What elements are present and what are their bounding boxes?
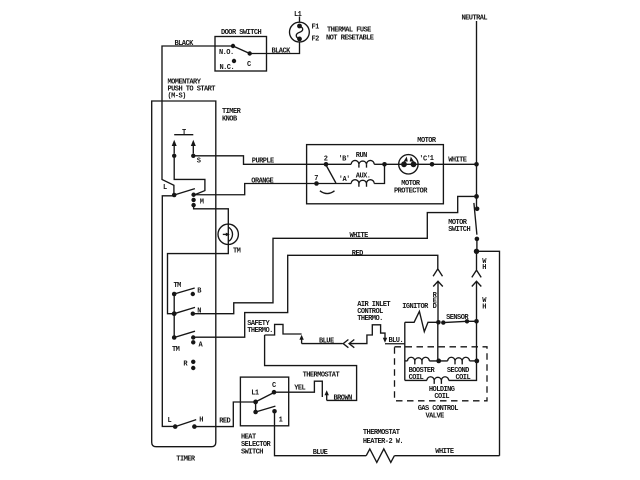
svg-text:MOTOR: MOTOR: [417, 137, 437, 145]
second coil: [447, 357, 477, 382]
timer switch L-M: [163, 184, 204, 208]
svg-text:C: C: [247, 61, 251, 69]
timer box: [152, 101, 216, 464]
motor box: [307, 137, 444, 204]
motor switch: [448, 203, 479, 254]
white wire bottom: [394, 455, 499, 457]
holding coil: [405, 361, 477, 401]
orange wire M to motor pin7: [194, 184, 317, 195]
svg-text:VALVE: VALVE: [426, 412, 445, 420]
timer switch A: [172, 331, 204, 354]
svg-text:BLACK: BLACK: [175, 40, 195, 48]
svg-text:YEL: YEL: [294, 385, 305, 393]
timer motor TM: [218, 224, 241, 255]
svg-text:2: 2: [324, 156, 328, 164]
svg-text:COIL: COIL: [434, 393, 449, 401]
svg-text:RUN: RUN: [356, 152, 367, 160]
svg-text:M: M: [200, 199, 204, 207]
timer contact R unused: [183, 360, 195, 371]
svg-text:1: 1: [279, 416, 283, 424]
svg-text:DOOR SWITCH: DOOR SWITCH: [221, 29, 262, 37]
connector arrow WH rail: [472, 281, 482, 286]
svg-text:L: L: [168, 417, 172, 425]
safety thermostat element: [265, 324, 302, 335]
wire common to pin1 through protector: [385, 163, 433, 165]
svg-text:BLUE: BLUE: [313, 449, 328, 457]
svg-text:L1: L1: [251, 389, 259, 397]
svg-text:WHITE: WHITE: [350, 232, 369, 240]
neutral rail below motor switch: [476, 251, 478, 269]
brown wire loop to safety thermo: [265, 335, 357, 400]
svg-text:C: C: [272, 382, 276, 390]
air inlet contact arrow: [383, 338, 387, 343]
red wire A contact to gas valve connector: [193, 255, 437, 337]
junction dot white neutral: [474, 162, 479, 167]
red rail junction to booster junction: [437, 322, 439, 361]
ignitor element: [405, 311, 437, 331]
wire rail pivot to bottom L contact: [162, 196, 175, 427]
junction dot second coil right: [474, 359, 479, 364]
svg-text:BLUE: BLUE: [319, 337, 334, 345]
svg-text:L: L: [163, 184, 167, 192]
timer switch TM-B: [172, 282, 202, 297]
motor pin 2: [324, 162, 329, 167]
wire black door switch C to thermal fuse: [250, 42, 300, 53]
svg-text:PURPLE: PURPLE: [252, 157, 274, 165]
svg-text:THERMAL FUSE: THERMAL FUSE: [327, 26, 371, 34]
timer switch N: [172, 307, 202, 316]
safety contact arrow: [299, 335, 303, 340]
svg-text:T: T: [182, 129, 186, 137]
svg-text:H: H: [482, 264, 486, 272]
run winding: [326, 152, 385, 168]
svg-text:F2: F2: [312, 36, 320, 44]
connector chevron red wire: [433, 269, 442, 276]
junction dot motor common: [382, 162, 387, 167]
junction dot booster-second: [436, 359, 441, 364]
motor start switch blade: [326, 165, 336, 183]
svg-text:'B': 'B': [339, 156, 350, 164]
svg-text:RED: RED: [219, 418, 230, 426]
red wire timer H to heat selector: [194, 402, 255, 427]
white wire N contact to neutral junction: [193, 196, 477, 313]
svg-text:WHITE: WHITE: [448, 157, 467, 165]
svg-text:TM: TM: [233, 247, 241, 255]
connector chevron WH rail: [472, 270, 481, 277]
wire T left contact to M blade feed: [174, 158, 205, 194]
svg-text:(M-S): (M-S): [168, 92, 187, 100]
svg-text:N.C.: N.C.: [220, 64, 235, 72]
svg-text:BROWN: BROWN: [334, 394, 353, 402]
timer switch L-H bottom: [168, 417, 204, 429]
wire heat selector 1 to bottom blue: [275, 414, 367, 456]
wire M contact to timer motor: [194, 207, 229, 225]
svg-text:THERMOSTAT: THERMOSTAT: [303, 371, 340, 379]
svg-text:PROTECTOR: PROTECTOR: [394, 187, 428, 195]
svg-text:H: H: [482, 304, 486, 312]
svg-text:BLACK: BLACK: [272, 47, 292, 55]
momentary contacts T: [172, 129, 201, 165]
svg-text:ORANGE: ORANGE: [251, 177, 273, 185]
svg-text:N.O.: N.O.: [219, 49, 234, 57]
blue wire out of inlet thermo: [385, 343, 405, 345]
wire timer motor return to TM pivots: [168, 244, 229, 313]
svg-text:TM: TM: [174, 282, 182, 290]
air inlet thermostat element: [353, 325, 386, 344]
svg-text:AUX.: AUX.: [356, 172, 371, 180]
svg-text:BLU.: BLU.: [389, 337, 404, 345]
gas valve left leg: [404, 322, 406, 380]
connector arrow red wire: [433, 281, 443, 286]
svg-text:7: 7: [314, 175, 318, 183]
svg-text:D: D: [433, 303, 437, 311]
svg-text:RED: RED: [352, 250, 363, 258]
neutral rail sensor to coil junction: [476, 321, 478, 361]
aux winding: [317, 164, 385, 187]
gas control valve dashed box: [395, 347, 488, 421]
svg-text:'C': 'C': [419, 156, 430, 164]
svg-text:NOT RESETABLE: NOT RESETABLE: [326, 34, 374, 42]
svg-text:NEUTRAL: NEUTRAL: [462, 15, 488, 23]
svg-text:SWITCH: SWITCH: [448, 226, 470, 234]
svg-text:THERMOSTAT: THERMOSTAT: [363, 429, 400, 437]
sensor element: [441, 319, 479, 325]
junction dot ignitor red: [436, 320, 441, 325]
svg-text:L1: L1: [294, 11, 302, 19]
heat selector switch: [240, 377, 288, 456]
purple wire S to motor pin2: [193, 156, 326, 165]
junction dot neutral white: [474, 194, 479, 199]
timer pivot link rail: [173, 294, 175, 338]
blue wire safety to inlet connector chevron: [302, 343, 343, 345]
svg-text:S: S: [197, 158, 201, 166]
svg-text:F1: F1: [312, 24, 320, 32]
neutral rail: [462, 15, 488, 209]
motor pin 7: [314, 181, 319, 186]
thermal fuse L1: [290, 11, 374, 44]
yellow wire C to thermostat: [274, 381, 322, 397]
svg-text:H: H: [199, 417, 203, 425]
svg-text:SWITCH: SWITCH: [241, 448, 263, 456]
svg-text:THERMO.: THERMO.: [247, 327, 273, 335]
motor start switch arc: [320, 191, 335, 194]
svg-text:THERMO.: THERMO.: [357, 315, 383, 323]
wire black from door switch to timer push-to-start: [162, 46, 233, 194]
motor protector: [394, 155, 428, 196]
branch wire motor switch to bottom white: [477, 251, 500, 455]
svg-text:IGNITOR: IGNITOR: [402, 303, 429, 311]
svg-text:TM: TM: [172, 346, 180, 354]
svg-text:1: 1: [430, 155, 434, 163]
white wire pin1 to neutral: [432, 163, 477, 165]
svg-text:WHITE: WHITE: [435, 448, 454, 456]
booster coil: [405, 357, 448, 382]
thermostat contact arrow: [325, 390, 329, 395]
thermostat heater resistor: [363, 429, 403, 462]
svg-text:HEATER-2 W.: HEATER-2 W.: [363, 438, 403, 446]
svg-text:KNOB: KNOB: [222, 115, 238, 123]
door switch DS: [215, 29, 267, 72]
svg-text:TIMER: TIMER: [176, 456, 196, 464]
